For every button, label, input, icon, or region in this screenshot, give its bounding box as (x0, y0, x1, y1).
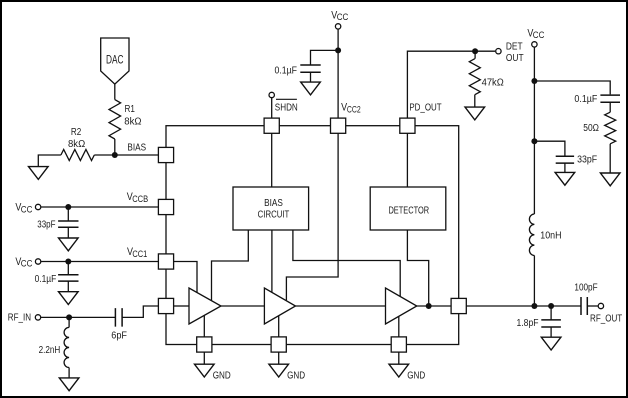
wire A3 to GND3 pin (398, 317, 400, 337)
wire node2 to 1.8pF (550, 306, 552, 320)
node output junction1 (531, 303, 537, 309)
capacitor 33pF right (556, 156, 574, 163)
svg-text:OUT: OUT (506, 53, 524, 64)
label VCC left2 (15, 256, 32, 269)
terminal VCC top (335, 24, 340, 29)
pin RF_OUT port (451, 298, 466, 313)
label 33pF left (37, 220, 55, 231)
ground GND3 (389, 364, 425, 381)
wire R2 to ground (38, 155, 61, 167)
wire 2.2nH to ground (68, 368, 70, 378)
pin GND1 (197, 337, 212, 352)
svg-text:DETECTOR: DETECTOR (388, 206, 429, 217)
ground 33pF right (555, 172, 575, 185)
resistor 50ohm (605, 112, 616, 144)
node BIAS junction (112, 152, 118, 158)
svg-text:GND: GND (407, 370, 425, 381)
wire VCC node to 0.1uF cap (311, 50, 339, 65)
wire RF_IN to 6pF (40, 316, 115, 318)
wire PD_OUT pin to detector (406, 134, 408, 188)
node VCCB junction (65, 204, 71, 210)
node VCC right junction1 (531, 78, 537, 84)
svg-text:CC1: CC1 (132, 249, 147, 259)
label 0.1uF top (275, 65, 298, 76)
bias circuit block (233, 187, 309, 230)
label 10nH (540, 230, 561, 241)
wire A2 output to A3 input (296, 305, 386, 307)
ground 33pF left (59, 238, 79, 251)
label R1 (124, 104, 142, 128)
wire 0.1uF to ground (67, 281, 69, 292)
label 2.2nH (39, 345, 61, 356)
capacitor 100pF (581, 297, 587, 315)
label RF_OUT (590, 314, 622, 325)
terminal RF_OUT (598, 303, 603, 308)
label 6pF (111, 331, 127, 342)
pin BIAS (158, 147, 173, 162)
wire 0.1uF to 50ohm (609, 102, 611, 112)
wire BIAS node to BIAS pin (115, 154, 159, 156)
ground GND2 (269, 364, 305, 381)
wire 100pF to RF_OUT terminal (587, 305, 598, 307)
wire GND3 pin to ground (398, 352, 400, 364)
svg-text:6pF: 6pF (111, 331, 127, 342)
wire node to 2.2nH (68, 317, 70, 327)
resistor R1 (109, 100, 121, 139)
svg-text:RF_OUT: RF_OUT (590, 314, 622, 325)
svg-text:BIAS: BIAS (127, 143, 146, 154)
node VCC right junction2 (531, 138, 537, 144)
wire GND1 pin to ground (203, 352, 205, 364)
wire DAC to R1 (114, 84, 116, 100)
label DET OUT (506, 42, 524, 64)
pin VCC1 (158, 254, 173, 269)
svg-text:DET: DET (506, 42, 523, 53)
label 33pF right (577, 155, 597, 166)
amplifier A3 (386, 288, 417, 324)
inductor 2.2nH (64, 327, 69, 367)
terminal RF_IN (35, 315, 40, 320)
wire node to 0.1uF left (67, 262, 69, 275)
ground 1.8pF (541, 337, 561, 350)
capacitor 0.1uF top (300, 65, 320, 72)
svg-text:CIRCUIT: CIRCUIT (258, 210, 290, 221)
pin PD_OUT (400, 118, 415, 133)
pin SHDN (264, 118, 279, 133)
capacitor 0.1uF left (58, 275, 78, 281)
ground 2.2nH (59, 378, 79, 391)
label VCC left1 (15, 202, 32, 215)
svg-text:33pF: 33pF (37, 220, 55, 231)
wire 33pF to ground (67, 227, 69, 238)
wire 6pF to RF_IN pin (122, 306, 158, 317)
inductor 10nH (529, 214, 534, 256)
label 100pF (574, 283, 597, 294)
wire node to 33pF (67, 207, 69, 221)
label VCC1 (127, 246, 147, 259)
terminal SHDN (269, 92, 274, 97)
svg-text:33pF: 33pF (577, 155, 597, 166)
terminal VCC right (532, 42, 537, 47)
label 0.1uF left (35, 274, 57, 285)
wire 33pF right to ground (564, 163, 566, 172)
wire 1.8pF to ground (550, 327, 552, 337)
node A3 output junction (426, 303, 432, 309)
pin VCC2 (331, 118, 346, 133)
wire VCC1 pin to A1 supply (174, 262, 197, 293)
wire A3 output to RF_OUT pin (417, 305, 451, 307)
wire node to R3 (474, 51, 476, 59)
label VCC2 (341, 102, 361, 115)
wire RF_OUT pin to 100pF (466, 305, 581, 307)
wire VCC right rail (533, 47, 535, 214)
wire bias to A3 (293, 230, 400, 296)
wire bias to A1 (212, 230, 249, 301)
wire VCC2 terminal to VCC1 pin (41, 261, 159, 263)
wire SHDN terminal to pin (271, 97, 273, 118)
svg-text:CC: CC (21, 259, 33, 269)
svg-text:SHDN: SHDN (275, 103, 298, 114)
svg-text:100pF: 100pF (574, 283, 597, 294)
svg-text:10nH: 10nH (540, 230, 561, 241)
DAC source (101, 38, 129, 84)
svg-text:PD_OUT: PD_OUT (409, 102, 441, 113)
wire VCC2 pin to A2 supply (286, 134, 338, 301)
resistor R2 (61, 150, 94, 161)
svg-text:2.2nH: 2.2nH (39, 345, 61, 356)
node VCC top junction (335, 47, 341, 53)
svg-text:CC2: CC2 (347, 104, 361, 114)
svg-text:BIAS: BIAS (264, 198, 283, 209)
wire VCC top to VCC2 pin (337, 29, 339, 118)
detector block (370, 187, 446, 230)
svg-text:CC: CC (337, 12, 349, 22)
capacitor 33pF left (58, 221, 78, 227)
wire R1 to BIAS node (114, 139, 116, 155)
pin VCCB (158, 199, 173, 214)
wire SHDN pin to bias circuit (271, 134, 273, 188)
wire A1 to GND1 pin (203, 316, 205, 337)
pin GND2 (271, 337, 286, 352)
terminal VCC left1 (35, 204, 40, 209)
node RF_IN junction (66, 314, 72, 320)
svg-text:8kΩ: 8kΩ (68, 139, 86, 150)
label R2 (68, 127, 86, 150)
label 0.1uF right (574, 94, 597, 105)
ground 47k (465, 107, 485, 120)
wire GND2 pin to ground (278, 352, 280, 364)
wire 50ohm to ground (609, 144, 611, 173)
label BIAS (127, 143, 146, 154)
svg-text:8kΩ: 8kΩ (124, 116, 142, 127)
label RF_IN (8, 313, 31, 324)
wire R3 to ground (474, 95, 476, 107)
label VCC right (527, 28, 544, 41)
wire VCC1 terminal to VCCB pin (41, 206, 159, 208)
svg-text:R1: R1 (125, 104, 136, 115)
svg-text:CCB: CCB (132, 194, 148, 204)
label VCCB (127, 191, 148, 204)
pin RF_IN port (158, 298, 173, 313)
label VCC top (331, 9, 348, 22)
capacitor 6pF (115, 308, 122, 327)
amplifier A1 (189, 288, 221, 324)
terminal DET OUT (496, 49, 501, 54)
svg-text:GND: GND (213, 370, 231, 381)
svg-text:1.8pF: 1.8pF (517, 318, 539, 329)
ground GND1 (195, 364, 231, 381)
node output junction2 (548, 303, 554, 309)
ground R2 (29, 167, 49, 180)
wire R2 to BIAS node (94, 154, 115, 156)
svg-text:DAC: DAC (106, 54, 124, 66)
wire A2 to GND2 pin (278, 316, 280, 337)
label 47k (482, 77, 505, 88)
wire node2 to 33pF right (534, 141, 565, 155)
ground 0.1uF top (301, 82, 321, 95)
capacitor 1.8pF (541, 320, 561, 327)
terminal VCC left2 (35, 259, 40, 264)
label SHDN with overline (275, 99, 298, 113)
wire cap to ground top (310, 72, 312, 82)
label 1.8pF (517, 318, 539, 329)
wire A1 output to A2 input (221, 305, 264, 307)
wire RF_IN pin to A1 input (174, 305, 189, 307)
svg-text:CC: CC (533, 30, 545, 40)
wire bias to A2 (271, 230, 273, 292)
svg-text:RF_IN: RF_IN (8, 313, 31, 324)
svg-text:0.1µF: 0.1µF (574, 94, 597, 105)
svg-text:GND: GND (287, 370, 305, 381)
svg-text:50Ω: 50Ω (583, 123, 599, 134)
label 50ohm (583, 123, 599, 134)
svg-text:47kΩ: 47kΩ (482, 77, 505, 88)
wire 10nH to output node (533, 256, 535, 307)
node VCC1 junction (65, 259, 71, 265)
wire detector to output node (407, 230, 428, 306)
node DET OUT junction (472, 48, 478, 54)
svg-text:0.1µF: 0.1µF (35, 274, 57, 285)
amplifier A2 (264, 288, 295, 324)
capacitor 0.1uF right (600, 95, 620, 102)
svg-text:R2: R2 (71, 127, 82, 138)
wire PD_OUT pin to DET OUT (407, 51, 495, 118)
IC outline U1 (166, 126, 459, 345)
svg-text:0.1µF: 0.1µF (275, 65, 298, 76)
label PD_OUT (409, 102, 441, 113)
ground 0.1uF left (59, 292, 79, 305)
svg-text:CC: CC (21, 204, 33, 214)
ground 50ohm (600, 173, 620, 186)
pin GND3 (391, 337, 406, 352)
wire node1 to 0.1uF right (534, 81, 610, 94)
resistor 47k (469, 59, 480, 95)
